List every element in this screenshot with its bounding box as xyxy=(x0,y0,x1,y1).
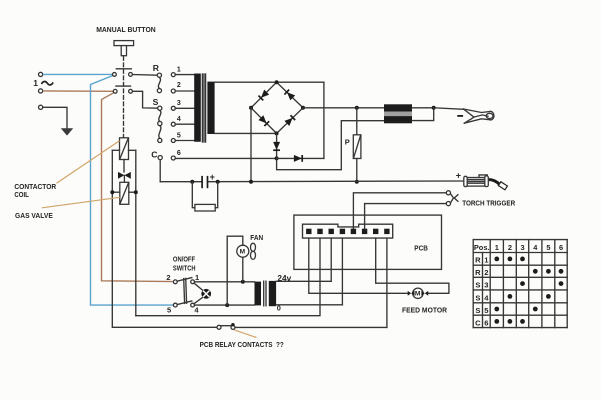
earth clamp xyxy=(464,109,494,123)
transformer T2 secondary winding xyxy=(269,281,276,306)
node top xyxy=(275,80,279,84)
resistor P lead bottom xyxy=(356,159,358,182)
svg-text:SWITCH: SWITCH xyxy=(173,265,196,272)
svg-text:P: P xyxy=(345,138,350,147)
node right xyxy=(301,106,305,110)
wire choke bottom loop xyxy=(412,108,434,121)
relay contact right xyxy=(231,325,235,329)
pointer line relay xyxy=(234,330,257,338)
actuator dashed link xyxy=(123,57,125,138)
bleed resistor loop xyxy=(192,182,195,208)
svg-text:2: 2 xyxy=(508,243,512,252)
wire tap1 xyxy=(175,74,194,76)
button contact bar 1 xyxy=(116,68,131,70)
manual button stem xyxy=(121,46,126,56)
bridge edge R-B xyxy=(277,108,303,134)
node J6 xyxy=(275,156,279,160)
capacitor C1 plate right xyxy=(207,176,209,188)
wire to clamp xyxy=(436,108,464,109)
svg-text:M: M xyxy=(415,291,421,298)
contactor coil body xyxy=(120,138,129,160)
right supply vertical xyxy=(135,150,137,315)
transformer T1 primary winding xyxy=(194,74,201,142)
mains terminal L1 xyxy=(39,72,43,76)
torch trigger contact bottom xyxy=(446,202,450,206)
diode D3 bottom-left xyxy=(258,115,269,126)
mains terminal L2 xyxy=(39,89,43,93)
lamp leads xyxy=(194,283,202,290)
svg-text:1: 1 xyxy=(33,78,38,88)
switch position table grid xyxy=(473,240,567,328)
switch contact 4 xyxy=(191,303,195,307)
bridge edge T-R xyxy=(277,82,303,108)
svg-text:3: 3 xyxy=(484,281,488,290)
feed motor M xyxy=(413,288,423,298)
transformer T1 core xyxy=(201,74,203,142)
switch contact 1 xyxy=(191,280,195,284)
wire secondary bottom to bridge xyxy=(215,132,277,134)
wire pin3 to 24v xyxy=(330,238,332,281)
wiper S contact a xyxy=(158,106,162,110)
feed motor terminal right xyxy=(425,291,428,296)
svg-text:4: 4 xyxy=(177,116,181,123)
bridge edge L-B xyxy=(251,108,277,134)
wire contact1 to T2 primary top xyxy=(195,281,255,283)
svg-text:R: R xyxy=(475,256,481,265)
wire relay right to pin8 xyxy=(235,326,387,328)
switch contact 2 xyxy=(173,280,177,284)
svg-text:6: 6 xyxy=(559,243,563,252)
wire choke to clamp node xyxy=(412,107,434,109)
wiper S curve 1 xyxy=(159,110,161,121)
wire tap5 xyxy=(175,140,194,142)
transformer T1 secondary winding xyxy=(207,82,214,134)
node bottom xyxy=(275,131,279,135)
svg-text:FAN: FAN xyxy=(250,235,263,242)
node P top xyxy=(355,106,359,110)
svg-text:6: 6 xyxy=(177,150,181,157)
wire tap3 xyxy=(175,107,194,109)
wiper R contact b xyxy=(157,89,161,93)
node relay xyxy=(231,323,234,326)
diode D2 top-right xyxy=(284,90,295,101)
button contact P1a xyxy=(113,73,117,77)
node fan bottom xyxy=(241,280,245,284)
node P bottom xyxy=(355,180,359,184)
wire J6 to D6 cathode line xyxy=(277,157,324,159)
svg-text:R: R xyxy=(475,268,481,277)
solenoid side right xyxy=(129,191,136,193)
wire blue branch to switch 5 xyxy=(91,76,174,306)
contactor stub left xyxy=(112,149,119,151)
svg-text:5: 5 xyxy=(177,133,181,140)
trigger actuator xyxy=(451,194,453,202)
svg-text:COIL: COIL xyxy=(14,190,29,199)
node cap left xyxy=(190,180,194,184)
relay contact left xyxy=(217,325,221,329)
bleed resistor body xyxy=(195,204,215,211)
mains terminal E xyxy=(39,105,43,109)
bridge edge T-L xyxy=(251,82,277,108)
connector pin 4 xyxy=(340,229,345,234)
wire coil to valve xyxy=(123,160,125,173)
connector pin 7 xyxy=(373,229,378,234)
left supply vertical xyxy=(112,150,217,327)
relay bar xyxy=(221,325,232,327)
wire T2 secondary top to pin3 xyxy=(276,280,331,282)
wire P1b to R xyxy=(132,74,157,77)
svg-text:S: S xyxy=(475,293,480,302)
svg-text:S: S xyxy=(475,306,480,315)
svg-text:2: 2 xyxy=(484,268,488,277)
table dots xyxy=(494,257,563,324)
transformer T2 core xyxy=(263,281,265,306)
svg-text:1: 1 xyxy=(484,256,489,265)
connector pin 1 xyxy=(306,229,311,234)
svg-text:S: S xyxy=(153,97,159,107)
tap contact 5 xyxy=(171,139,175,143)
node bridge-left bus xyxy=(249,180,253,184)
wire J6 loop to choke bottom xyxy=(277,121,384,170)
wiper S contact c xyxy=(158,138,162,142)
svg-text:S: S xyxy=(475,281,480,290)
trigger chevron xyxy=(454,195,458,202)
feed motor terminal left xyxy=(408,291,411,296)
wire fan bottom xyxy=(242,257,244,282)
node fan top xyxy=(225,303,229,307)
svg-text:FEED MOTOR: FEED MOTOR xyxy=(402,308,447,315)
wire P2b to S xyxy=(132,91,157,108)
svg-text:5: 5 xyxy=(484,306,489,315)
diode D4 bottom-right xyxy=(284,115,295,126)
manual button cap xyxy=(114,41,134,46)
diode D5 down xyxy=(273,142,280,150)
tap contact 6 xyxy=(171,156,175,160)
svg-text:MANUAL BUTTON: MANUAL BUTTON xyxy=(96,27,156,34)
tap contact 1 xyxy=(171,73,175,77)
contactor stub right xyxy=(129,149,136,151)
wire L1 blue xyxy=(43,73,113,75)
wire tap4 xyxy=(175,123,194,125)
svg-text:4: 4 xyxy=(484,293,489,302)
wire T2 secondary bottom to pin4 xyxy=(276,304,342,306)
wire D6 up to bridge top xyxy=(323,82,325,158)
svg-text:C: C xyxy=(475,318,481,327)
wiper R curve xyxy=(158,77,160,88)
svg-text:1: 1 xyxy=(177,67,181,74)
torch handle grip xyxy=(467,178,485,187)
torch handle right cap xyxy=(485,176,489,187)
svg-text:1: 1 xyxy=(495,243,499,252)
pointer line contactor coil xyxy=(57,141,120,183)
bus positive right segment xyxy=(208,180,464,183)
label minus xyxy=(457,115,463,117)
svg-text:5: 5 xyxy=(546,243,550,252)
resistor P lead top xyxy=(356,108,358,135)
wire pin8 to relay xyxy=(386,238,388,327)
button contact P2a xyxy=(113,89,117,93)
svg-text:R: R xyxy=(153,63,160,73)
node clamp xyxy=(432,106,436,110)
connector pin 5 xyxy=(351,229,356,234)
wiper S contact b xyxy=(158,121,162,125)
svg-text:+: + xyxy=(210,172,215,182)
svg-text:1: 1 xyxy=(195,273,199,282)
wire bridge bottom down xyxy=(276,133,278,158)
wire pin7 to feed motor return xyxy=(376,238,449,293)
wire L2 brown xyxy=(43,90,113,92)
svg-text:3: 3 xyxy=(520,243,524,252)
wire pin4 to 0v xyxy=(341,238,343,305)
wire C to bus xyxy=(159,160,161,182)
svg-text:6: 6 xyxy=(484,318,488,327)
choke L1 top winding xyxy=(384,104,412,111)
svg-text:C: C xyxy=(151,149,157,159)
svg-text:2: 2 xyxy=(177,82,181,89)
capacitor C1 plate left xyxy=(201,176,203,188)
switch link bars xyxy=(183,279,186,304)
diode D6 freewheel xyxy=(294,155,302,162)
svg-text:4: 4 xyxy=(533,243,538,252)
svg-text:TORCH TRIGGER: TORCH TRIGGER xyxy=(462,200,515,207)
svg-text:GAS VALVE: GAS VALVE xyxy=(15,211,53,220)
wire earth xyxy=(43,107,67,128)
wire secondary top to bridge xyxy=(215,81,324,83)
wire pin1 to feed motor xyxy=(309,238,408,293)
wire bridge left down to bus xyxy=(250,108,252,182)
torch trigger contact top xyxy=(446,191,450,195)
bus positive left segment xyxy=(160,181,202,183)
wiper R contact a xyxy=(157,73,161,77)
PCB box xyxy=(294,215,442,269)
resistor P body xyxy=(353,135,361,159)
tap contact 2 xyxy=(171,89,175,93)
table row labels xyxy=(475,256,489,328)
diode D1 top-left xyxy=(258,90,269,101)
connector pin 6 xyxy=(362,229,367,234)
wire trigger bottom to pin6 xyxy=(365,204,447,229)
svg-text:ON/OFF: ON/OFF xyxy=(173,257,195,264)
node cap right xyxy=(216,180,220,184)
svg-text:Pos.: Pos. xyxy=(474,245,490,252)
svg-text:PCB: PCB xyxy=(414,244,428,253)
node solenoid right xyxy=(134,190,138,194)
torch neck xyxy=(488,180,500,186)
button contact bar 2 xyxy=(116,85,131,87)
wire bridge right to choke xyxy=(303,107,384,109)
wire trigger top to pin5 xyxy=(353,193,446,229)
solenoid side left xyxy=(112,191,120,193)
indicator lamp xyxy=(201,289,211,299)
torch trigger lever bump xyxy=(479,175,487,177)
fan blades xyxy=(251,243,256,251)
torch nozzle xyxy=(498,182,507,190)
wire pin2 to contactor xyxy=(136,238,320,316)
fan motor M xyxy=(237,245,249,257)
svg-text:4: 4 xyxy=(194,305,199,314)
svg-text:M: M xyxy=(240,249,246,256)
torch handle left cap xyxy=(464,176,467,186)
wire tap2 xyxy=(175,90,194,92)
tap contact 3 xyxy=(171,106,175,110)
button contact P1b xyxy=(129,73,133,77)
transformer T2 primary winding xyxy=(255,282,262,306)
button contact P2b xyxy=(129,89,133,93)
switch blade top xyxy=(177,278,192,282)
choke L1 bottom winding xyxy=(384,116,412,123)
PCB connector outline xyxy=(303,224,393,238)
svg-text:+: + xyxy=(456,171,461,181)
switch blade bottom xyxy=(177,301,192,305)
connector pin 2 xyxy=(317,229,322,234)
node left xyxy=(249,106,253,110)
wire fan top loop xyxy=(227,236,243,305)
connector pin 3 xyxy=(329,229,334,234)
svg-text:3: 3 xyxy=(177,100,181,107)
gas valve solenoid body xyxy=(120,182,129,204)
wiper S curve 2 xyxy=(159,126,161,139)
wire tap6 to diode node xyxy=(175,157,276,159)
wire brown branch to switch 2 xyxy=(102,93,174,282)
gas valve symbol xyxy=(118,172,124,179)
tap contact 4 xyxy=(171,122,175,126)
svg-text:5: 5 xyxy=(167,305,171,314)
ground xyxy=(61,128,73,135)
switch contact 5 xyxy=(173,303,177,307)
wire contact4 to T2 primary bottom xyxy=(195,304,255,306)
node solenoid left xyxy=(110,190,114,194)
connector pin 8 xyxy=(384,229,389,234)
wiper C contact xyxy=(158,156,162,160)
pointer line gas valve xyxy=(42,197,120,208)
svg-text:2: 2 xyxy=(166,273,170,282)
svg-text:PCB RELAY CONTACTS ??: PCB RELAY CONTACTS ?? xyxy=(200,342,284,349)
choke L1 gap xyxy=(384,112,412,117)
